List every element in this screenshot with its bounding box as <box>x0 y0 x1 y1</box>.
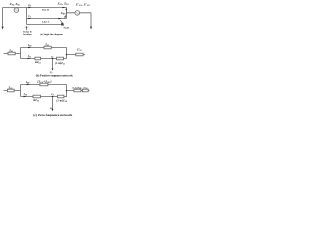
svg-text:Fault: Fault <box>64 27 70 30</box>
resistor (ZL0+ZM0) box <box>40 83 48 86</box>
svg-text:(b) Positive-sequence network: (b) Positive-sequence network <box>36 74 73 78</box>
label tilde in left source <box>15 9 18 12</box>
label Relay B location <box>23 31 32 36</box>
resistor mZL1 box <box>35 57 41 60</box>
label (1-m)ZM0 <box>72 87 82 91</box>
label ZS0 <box>9 86 13 90</box>
svg-text:N0: N0 <box>49 108 53 110</box>
node bus H0 junction <box>66 90 68 92</box>
label ZL1,ZL0 line impedances <box>58 1 69 6</box>
label Line B <box>42 9 49 12</box>
resistor Z'S0 box <box>82 89 88 92</box>
svg-text:mZL0: mZL0 <box>33 99 39 103</box>
bus G <box>26 8 28 25</box>
wire: c right stub <box>67 90 90 92</box>
wire: b bottom branch <box>21 58 67 60</box>
svg-text:ZL1, ZL0: ZL1, ZL0 <box>58 1 69 6</box>
node F1 <box>52 58 54 60</box>
resistor ZS0 box <box>7 89 14 92</box>
svg-text:Z′S0: Z′S0 <box>83 86 87 90</box>
arrow fault branch F1 down <box>52 59 54 69</box>
label Z'S0 <box>83 86 87 90</box>
svg-text:Z′S1: Z′S1 <box>77 49 82 53</box>
fault flash arrow <box>60 20 63 23</box>
label Ia <box>27 15 31 19</box>
ground (left source earth arrow) <box>2 27 4 30</box>
resistor mZL0 box <box>33 95 40 98</box>
svg-text:(ZL0+ZM0): (ZL0+ZM0) <box>37 79 52 84</box>
label (1-m)ZL0 <box>56 100 67 104</box>
label tilde in right source <box>76 12 79 15</box>
label mZL0 <box>33 99 39 103</box>
label Ib0 <box>25 81 29 85</box>
label Z'S1 <box>77 49 82 53</box>
relay location pointer arrow <box>26 28 28 31</box>
svg-text:IB0: IB0 <box>25 81 29 85</box>
resistor Z'S1 box <box>76 53 83 56</box>
label ZS1,ZS0 left source <box>10 2 20 7</box>
label F0 <box>51 94 54 96</box>
label Fault <box>64 27 70 30</box>
arrow current Ia on Line A <box>28 18 31 20</box>
svg-text:Line B: Line B <box>42 9 49 12</box>
wire: left source top wire <box>3 7 27 9</box>
wire: c bottom branch <box>21 96 67 98</box>
svg-text:ZS0: ZS0 <box>9 86 13 90</box>
ground (right source earth arrow) <box>90 27 92 30</box>
resistor (1-m)ZM0 box <box>74 89 81 92</box>
node bus H1 junction <box>66 54 68 56</box>
wire: right ground drop <box>90 13 92 27</box>
svg-text:Z′S1, Z′S0: Z′S1, Z′S0 <box>76 3 90 8</box>
bus H <box>66 8 68 19</box>
svg-text:IB: IB <box>27 4 31 8</box>
arrow current Ia1 <box>28 58 31 60</box>
svg-text:location: location <box>23 33 32 36</box>
bus G0 <box>20 85 22 97</box>
bus G1 <box>20 48 22 59</box>
wire: Line A <box>27 18 67 20</box>
arrow current Ia0 <box>24 96 27 98</box>
mutual coupling arc ZM0 <box>65 9 67 16</box>
label ZM0 <box>61 12 65 16</box>
svg-text:(1-m)ZL1: (1-m)ZL1 <box>55 62 65 66</box>
svg-text:(c) Zero-Sequence network: (c) Zero-Sequence network <box>33 113 72 117</box>
label mZL1 <box>35 61 41 65</box>
label (ZL0+ZM0) <box>37 79 52 84</box>
generator left source circle <box>14 8 19 13</box>
svg-text:mZL1: mZL1 <box>35 61 41 65</box>
label Line A <box>42 21 49 24</box>
label Ia0 <box>23 93 27 97</box>
label Ib <box>27 4 31 8</box>
fault X mark <box>61 24 63 26</box>
wire: left ground drop <box>2 8 4 28</box>
svg-text:IA1: IA1 <box>27 55 31 59</box>
label N0 <box>49 108 53 110</box>
label Ia1 <box>27 55 31 59</box>
svg-text:IB1: IB1 <box>27 44 31 48</box>
label Z'S1,Z'S0 right source <box>76 3 90 8</box>
resistor ZS1 box <box>8 52 15 55</box>
svg-text:ZM0: ZM0 <box>61 12 65 16</box>
svg-text:(a) Single-line diagram: (a) Single-line diagram <box>40 33 63 36</box>
svg-text:ZS1, ZS0: ZS1, ZS0 <box>10 2 20 7</box>
wire: bus H to right source <box>67 12 92 14</box>
svg-text:IA0: IA0 <box>23 93 27 97</box>
resistor ZL1 box <box>44 46 51 49</box>
svg-text:ZS1: ZS1 <box>9 49 13 53</box>
node F0 <box>52 96 54 98</box>
wire: b top branch <box>21 47 67 49</box>
svg-text:IA: IA <box>27 15 31 19</box>
arrow current Ib1 <box>28 47 31 49</box>
label (1-m)ZL1 <box>55 62 65 66</box>
resistor (1-m)ZL0 box <box>58 95 64 98</box>
wire: b right stub <box>67 54 86 56</box>
svg-text:(1-m)ZL0: (1-m)ZL0 <box>56 100 67 104</box>
arrow current Ib0 <box>27 84 30 86</box>
svg-text:ZL1: ZL1 <box>45 44 49 48</box>
label ZL1 <box>45 44 49 48</box>
arrow current Ib on Line B <box>28 7 31 9</box>
arrow fault branch F0 down <box>52 97 54 109</box>
label ZS1 <box>9 49 13 53</box>
generator right source circle <box>75 11 80 16</box>
label F1 <box>51 57 54 59</box>
arrow current into bus H on Line B <box>62 7 65 9</box>
wire: Line B <box>27 7 67 9</box>
arrow current near fault on Line A <box>58 18 61 20</box>
svg-text:(1-m)ZM0: (1-m)ZM0 <box>72 87 82 91</box>
bus H0 <box>66 85 68 98</box>
resistor (1-m)ZL1 box <box>57 57 64 60</box>
svg-text:Line A: Line A <box>42 21 49 24</box>
wire: earth return line <box>27 24 63 26</box>
caption (a) Single-line diagram <box>40 33 63 36</box>
caption (c) Zero-sequence network <box>33 113 72 117</box>
wire: c top branch <box>21 84 67 86</box>
wire: c left stub <box>4 90 21 92</box>
bus H1 <box>66 48 68 59</box>
label Ib1 <box>27 44 31 48</box>
wire: b left stub <box>4 53 21 55</box>
label N1 <box>49 72 53 74</box>
caption (b) Positive-sequence network <box>36 74 73 78</box>
